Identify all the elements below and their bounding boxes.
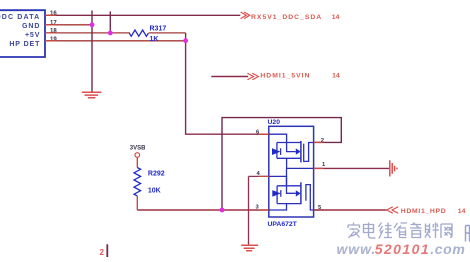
svg-text:RX5V1_DDC_SDA: RX5V1_DDC_SDA [251,14,322,21]
svg-text:GND: GND [22,23,40,30]
svg-text:520101: 520101 [375,241,430,257]
connector red pin stubs [45,15,56,41]
arrow RX5V1_DDC_SDA [241,12,250,19]
pin label HP DET [9,41,40,48]
wire pin16 to RX5V1_DDC_SDA [45,14,240,16]
wire 3VSB to R292 [136,157,138,167]
transistor Q-b source U loop [306,185,314,210]
junction dot GND/pin17 [90,22,95,27]
wire pin18 to R317 [45,32,186,34]
wire U20 pin4 [249,175,269,177]
U20 pin number 6 [256,129,260,135]
U20 pin number 5 [318,205,322,211]
transistor Q-b drain rise [286,168,288,185]
ground symbol G1 [82,92,102,98]
svg-text:UPA672T: UPA672T [268,221,298,228]
svg-text:HP DET: HP DET [9,41,40,48]
ground symbol G3 [241,245,258,250]
svg-text:+5V: +5V [25,32,40,39]
net name HDMI1_5VIN [260,73,310,80]
wire HDMI1_5VIN [211,76,248,78]
transistor Q-a rails [277,143,301,159]
transistor Q-a arrow [296,148,301,154]
svg-text:1K: 1K [150,36,159,43]
watermark chinese characters 家电维修资料网 [348,223,452,239]
wire R292 bottom lead [136,196,138,210]
transistor Q-b channel bar [300,182,302,204]
wire HPD riser to pin2 [222,118,341,210]
transistor Q-b arrow [296,190,301,196]
net name RX5V1_DDC_SDA [251,14,322,21]
svg-text:U20: U20 [268,119,281,126]
U20 red pin stubs [259,134,323,210]
svg-text:14: 14 [332,73,340,80]
arrow HDMI1_HPD [387,207,399,214]
wire U20 pin1 to ground [314,167,390,169]
watermark url www.520101.com [337,241,466,257]
resistor R317 [129,30,148,36]
power node circle 3VSB [135,153,140,158]
page edge artifact [100,244,108,257]
op-amp U20 package box [269,126,314,217]
label UPA672T [268,221,298,228]
arrow HDMI1_5VIN [247,73,258,80]
pin label GND [22,23,40,30]
transistor Q-a channel bar [300,141,302,163]
net name HDMI1_HPD [401,208,447,215]
svg-text:HDMI1_5VIN: HDMI1_5VIN [260,73,310,80]
pin label DDC DATA [0,14,40,21]
sheet ref 14 (5VIN) [332,73,340,80]
sheet ref 14 (HPD) [458,208,466,215]
svg-text:R317: R317 [150,26,167,33]
pin number 19 [50,37,57,43]
svg-text:HDMI1_HPD: HDMI1_HPD [401,208,447,215]
label U20 [268,119,281,126]
wire vertical GND drop [91,11,93,93]
pin number 16 [50,11,57,17]
body diode D-b [272,190,281,197]
label 3VSB [130,146,146,152]
U20 pin number 3 [256,204,260,210]
U20 pin number 2 [321,138,324,144]
label 1K [150,36,159,43]
body diode D-a [272,148,281,155]
label R317 [150,26,167,33]
svg-text:2: 2 [100,248,105,257]
junction dot HP DET/pin19 [183,38,188,43]
svg-text:16: 16 [50,11,57,17]
label 10K [148,188,161,195]
pin number 18 [50,28,57,34]
svg-text:14: 14 [332,14,340,21]
U20 pin number 1 [322,162,326,168]
svg-text:R292: R292 [148,170,165,177]
svg-text:DDC DATA: DDC DATA [0,14,40,21]
transistor Q-a source drop [287,158,314,168]
pin label +5V [25,32,40,39]
wire U20 pin5 to HDMI1_HPD [314,209,387,211]
wire pin4 drop to ground [248,176,250,245]
wire HPD net to U20 pin3 [137,209,268,211]
svg-text:14: 14 [458,208,466,215]
label R292 [148,170,165,177]
pin number 17 [50,20,57,26]
watermark partial character at edge [466,226,470,242]
transistor Q-b source to pin3 [269,204,287,210]
sheet ref 14 (DDC_SDA) [332,14,340,21]
transistor Q-a drain U loop [304,143,314,162]
junction dot HPD net [220,208,225,213]
svg-text:10K: 10K [148,188,161,195]
resistor R292 [134,168,141,196]
connector box (HDMI pins 16-19) [0,10,45,57]
transistor Q-a gate path [269,134,296,151]
svg-text:www.: www. [337,241,377,257]
U20 pin number 4 [257,171,261,177]
svg-text:.com: .com [430,241,465,257]
junction dot +5V/pin18 [108,31,113,36]
wire pin19 HP DET [45,40,188,42]
transistor Q-b rails [277,186,301,204]
svg-text:3VSB: 3VSB [130,146,146,152]
wire pin17 to ground [45,24,93,26]
transistor Q-b gate path [269,176,296,193]
wire R317 output down to U20 pin6 [186,33,269,134]
wire vertical +5V stub [109,11,111,33]
ground symbol G2 sideways [390,160,397,176]
